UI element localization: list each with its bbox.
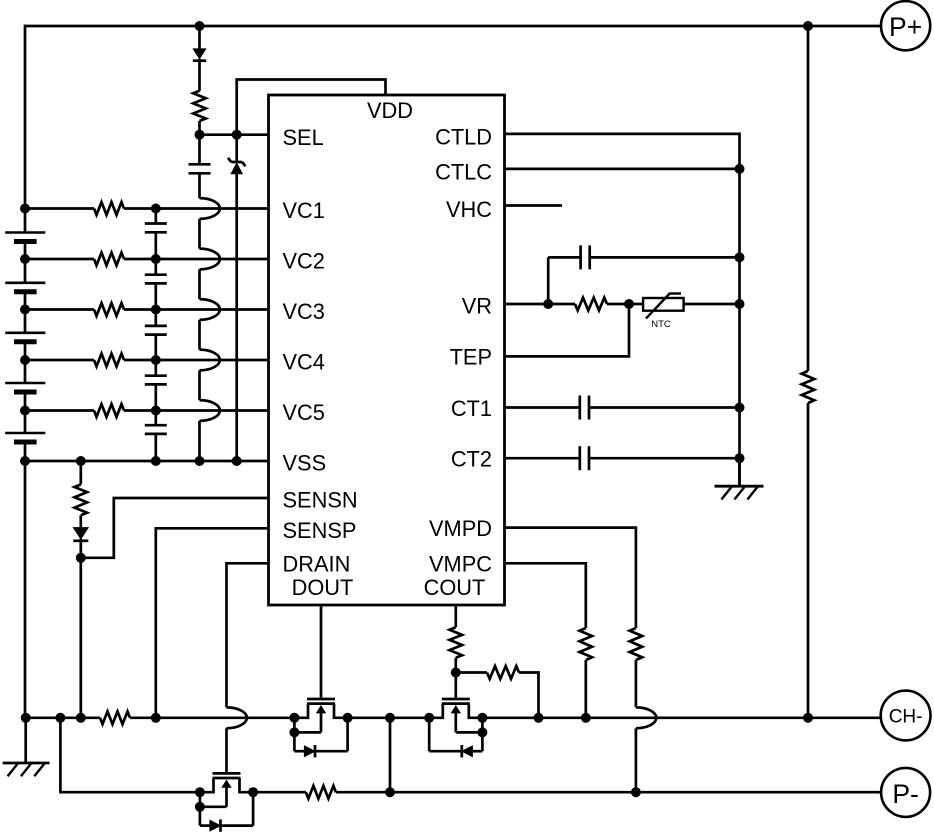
resistor R-VMPC — [580, 628, 593, 660]
wire VMPD hop over rail 1 — [636, 707, 656, 728]
resistor R-SENSN — [79, 461, 82, 484]
battery cell BT3 — [24, 310, 27, 333]
svg-text:VMPC: VMPC — [429, 551, 492, 576]
wire VDD branch: up from SEL junction, over IC top, down into VDD pin — [237, 80, 386, 135]
wire hop-column over VC5 — [200, 400, 220, 421]
node VR / cap branch junction — [543, 299, 553, 309]
wire VSS bus row — [25, 460, 269, 463]
wire rail 2: resistor to P- terminal — [336, 791, 881, 794]
resistor R-VC2 (cell sense filter) — [94, 253, 124, 266]
wire hop-column segment below VC2 — [198, 269, 201, 299]
node CT1 / bus junction — [735, 403, 745, 413]
node COUT gate junction — [451, 668, 461, 678]
wire SENSN tap to SENSN pin — [81, 498, 269, 558]
svg-text:CTLC: CTLC — [435, 160, 492, 185]
IC U1 body (battery protection controller) — [269, 95, 505, 605]
ground symbol right (control bus) — [738, 458, 741, 486]
svg-text:VC5: VC5 — [283, 400, 325, 425]
svg-text:CTLD: CTLD — [435, 125, 492, 150]
wire COUT pin down — [454, 605, 457, 627]
wire VC2 row battery to resistor — [25, 258, 94, 261]
wire CTLD pin to control bus — [505, 134, 740, 486]
svg-text:NTC: NTC — [651, 319, 671, 330]
node VC1 / filter cap junction — [151, 204, 161, 214]
resistor R-VC5 (cell sense filter) — [94, 404, 124, 417]
svg-text:VC2: VC2 — [283, 249, 325, 274]
capacitor C-CT1 — [578, 396, 581, 420]
wire CT1 pin row — [505, 406, 580, 409]
node rail1 / SENSN column junction — [76, 713, 86, 723]
svg-text:TEP: TEP — [450, 345, 492, 370]
capacitor C-VC4 (cell filter cap) — [154, 360, 157, 376]
diode D1 (VDD supply diode, cathode down) — [198, 26, 201, 49]
wire top rail from battery+ to P+ — [25, 25, 881, 28]
capacitor C-VC1 (cell filter cap) — [154, 209, 157, 224]
wire R-VMPD to hop — [635, 660, 638, 707]
svg-text:VC3: VC3 — [283, 299, 325, 324]
wire resistor to SEL node — [198, 121, 201, 135]
wire DOUT pin down to Q1 gate — [320, 605, 323, 699]
svg-text:VHC: VHC — [446, 197, 492, 222]
wire CT2 pin row — [505, 457, 580, 460]
svg-text:VC4: VC4 — [283, 350, 325, 375]
resistor R-sense (current sense) — [100, 711, 130, 724]
node battery tap VC4 — [20, 355, 30, 365]
terminal P- — [881, 768, 930, 817]
wire capacitor to first hop — [198, 173, 201, 198]
node VC2 / filter cap junction — [151, 254, 161, 264]
node VMPC / rail 1 junction — [581, 713, 591, 723]
wire VC4 row resistor to IC pin — [124, 359, 269, 362]
transistor Q3 (low-side FET, DRAIN) — [213, 772, 241, 775]
wire TEP pin to divider tap — [505, 304, 630, 356]
resistor R-VC1 (cell sense filter) — [94, 202, 124, 215]
wire zener anode down to VSS bus (crosses VC rows) — [235, 174, 238, 461]
zener diode ZD1 between SEL and VSS (cathode up) — [235, 135, 238, 162]
node R-GS2 / rail 1 junction — [534, 713, 544, 723]
wire DRAIN pin left and down toward low-side FET gate — [227, 563, 269, 707]
wire hop-column segment below VC1 — [198, 219, 201, 249]
node rail1 / rail2 branch junction — [55, 713, 65, 723]
wire hop-column over VC2 — [200, 249, 220, 270]
resistor R-VMPD — [630, 628, 643, 660]
capacitor C-VC3 (cell filter cap) — [154, 310, 157, 326]
wire VC3 row battery to resistor — [25, 308, 94, 311]
svg-text:CT1: CT1 — [451, 396, 492, 421]
node rail1 / rail2 tie junction — [385, 713, 395, 723]
wire VR cap branch up — [547, 257, 550, 304]
resistor R-pack (P+ to CH-) — [802, 371, 815, 403]
node VSS / zener column junction — [232, 456, 242, 466]
thermistor RT1 NTC — [643, 298, 684, 311]
node VR divider / TEP tap — [624, 299, 634, 309]
node CTLC / bus junction — [735, 164, 745, 174]
battery cell BT1 — [24, 209, 27, 233]
wire rail 1: ground to sense resistor — [26, 716, 100, 719]
wire VMPC pin right and down — [505, 563, 586, 628]
capacitor C-VR — [548, 256, 580, 259]
wire pack resistor to rail 1 — [807, 403, 810, 718]
wire hop-column segment below VC3 — [198, 320, 201, 350]
resistor R-VDD (series supply resistor) — [193, 91, 206, 121]
svg-text:VSS: VSS — [283, 451, 327, 476]
resistor R-VR — [548, 303, 575, 306]
svg-text:DOUT: DOUT — [292, 575, 354, 600]
node VMPD / rail 2 junction — [631, 787, 641, 797]
ground symbol bottom-left (battery negative) — [24, 718, 27, 763]
wire hop-column over VC3 — [200, 299, 220, 320]
svg-text:SENSN: SENSN — [283, 488, 358, 513]
node battery negative at VSS — [20, 456, 30, 466]
resistor R-COUT (gate resistor) — [450, 627, 463, 658]
wire VR pin to divider — [505, 303, 549, 306]
node battery tap VC2 — [20, 254, 30, 264]
wire VHC stub — [505, 204, 563, 207]
svg-text:CH-: CH- — [889, 707, 923, 728]
wire VMPD pin right and down — [505, 528, 636, 628]
wire SEL row to IC — [200, 133, 269, 136]
wire CTLC pin to control bus — [505, 168, 740, 171]
node VSS / hop column junction — [195, 456, 205, 466]
wire NTC to bus — [684, 303, 740, 306]
node battery tap VC1 — [20, 204, 30, 214]
svg-text:SEL: SEL — [283, 125, 324, 150]
wire left vertical battery+ drop — [24, 25, 27, 209]
node VC5 / filter cap junction — [151, 406, 161, 416]
wire DRAIN hop over bottom rail 1 — [227, 707, 247, 728]
battery cell BT4 — [24, 360, 27, 383]
svg-text:VDD: VDD — [367, 98, 413, 123]
wire VC5 row battery to resistor — [25, 409, 94, 412]
svg-text:COUT: COUT — [424, 575, 486, 600]
node VSS / SENSN divider junction — [76, 456, 86, 466]
wire VMPD to rail 2 — [635, 728, 638, 792]
wire SENSN column down to bottom rail — [79, 558, 82, 718]
wire battery negative down to bottom rail — [24, 461, 27, 718]
node top rail / pack resistor junction — [803, 21, 813, 31]
wire hop-column over VC1 — [200, 198, 220, 219]
node top rail / diode column junction — [195, 21, 205, 31]
transistor Q1 (discharge FET, DOUT) — [307, 698, 335, 701]
terminal P+ — [881, 1, 930, 50]
svg-text:DRAIN: DRAIN — [283, 551, 351, 576]
wire VC2 row resistor to IC pin — [124, 258, 269, 261]
svg-text:P+: P+ — [889, 12, 922, 42]
node rail2 tie junction — [385, 787, 395, 797]
node CT2 / bus junction — [735, 453, 745, 463]
svg-text:VC1: VC1 — [283, 198, 325, 223]
battery cell BT2 — [24, 259, 27, 283]
wire VC1 row battery to resistor — [25, 207, 94, 210]
wire pack resistor column from P+ rail — [807, 26, 810, 371]
terminal CH- — [881, 691, 931, 741]
wire hop-column segment below VC4 — [198, 370, 201, 400]
resistor R-VC4 (cell sense filter) — [94, 354, 124, 367]
node VC3 / filter cap junction — [151, 305, 161, 315]
battery cell BT5 — [24, 411, 27, 434]
wire VC5 row resistor to IC pin — [124, 409, 269, 412]
node VR net / bus junction — [735, 299, 745, 309]
wire R-VMPC to rail 1 — [584, 660, 587, 718]
wire rail 1: sense resistor to Q1 — [130, 716, 294, 719]
svg-text:P-: P- — [892, 779, 919, 809]
wire VC4 row battery to resistor — [25, 359, 94, 362]
capacitor C-VDD below SEL node — [198, 135, 201, 165]
wire rail1-rail2 tie — [389, 718, 392, 792]
resistor R-GS2 (gate-source resistor of Q2) — [456, 671, 487, 674]
node SEL / zener column junction — [232, 130, 242, 140]
wire VC3 row resistor to IC pin — [124, 308, 269, 311]
wire resistor to NTC — [607, 303, 643, 306]
wire VC1 row resistor to IC pin — [124, 207, 269, 210]
node VC4 / filter cap junction — [151, 355, 161, 365]
diode D-SENSN (cathode down) — [79, 515, 82, 527]
transistor Q2 (charge FET, COUT) — [442, 698, 470, 701]
wire DRAIN hop to Q3 gate — [225, 728, 228, 773]
svg-text:VR: VR — [462, 294, 492, 319]
node battery tap VC3 — [20, 305, 30, 315]
node SENSN divider tap — [76, 553, 86, 563]
node rail1 / ground junction — [21, 713, 31, 723]
svg-text:SENSP: SENSP — [283, 518, 357, 543]
wire rail 2 from rail 1 branch down — [60, 718, 200, 792]
wire COUT gate junction to Q2 gate — [454, 673, 457, 700]
node pack resistor / rail 1 junction — [803, 713, 813, 723]
wire hop-column from VC5 hop to VSS bus — [198, 421, 201, 461]
node battery tap VC5 — [20, 406, 30, 416]
resistor R-P- (rail 2 series) — [306, 786, 336, 799]
capacitor C-CT2 — [578, 446, 581, 470]
node SEL junction at diode column — [195, 130, 205, 140]
wire SENSP pin to bottom rail — [156, 528, 269, 718]
wire rail 2: Q3 to resistor — [253, 791, 306, 794]
capacitor C-VC2 (cell filter cap) — [154, 259, 157, 275]
resistor R-VC3 (cell sense filter) — [94, 303, 124, 316]
node rail1 / SENSP junction — [151, 713, 161, 723]
node VR-cap / bus junction — [735, 252, 745, 262]
wire hop-column over VC4 — [200, 350, 220, 371]
capacitor C-VC5 (cell filter cap) — [154, 411, 157, 426]
wire rail 1: Q1 to Q2 — [348, 716, 430, 719]
svg-text:CT2: CT2 — [451, 447, 492, 472]
svg-text:VMPD: VMPD — [429, 516, 492, 541]
node VSS / cap column junction — [151, 456, 161, 466]
wire rail 1: Q2 to CH- terminal — [482, 716, 881, 719]
